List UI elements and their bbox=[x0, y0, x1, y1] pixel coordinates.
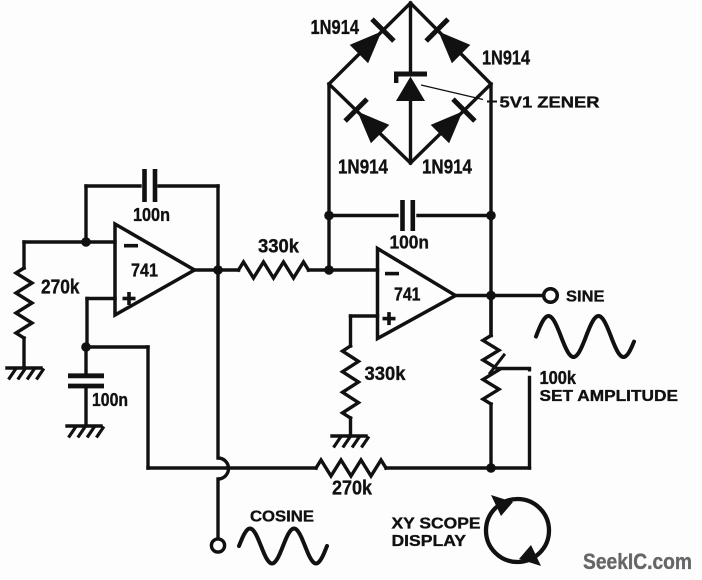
svg-text:1N914: 1N914 bbox=[482, 48, 531, 70]
svg-text:COSINE: COSINE bbox=[250, 509, 314, 526]
svg-text:SET AMPLITUDE: SET AMPLITUDE bbox=[540, 388, 679, 405]
svg-text:1N914: 1N914 bbox=[311, 17, 360, 39]
svg-text:741: 741 bbox=[131, 261, 158, 281]
svg-text:5V1 ZENER: 5V1 ZENER bbox=[500, 95, 601, 112]
svg-text:SINE: SINE bbox=[566, 289, 605, 306]
svg-text:SeekIC.com: SeekIC.com bbox=[583, 549, 692, 574]
svg-text:100n: 100n bbox=[92, 390, 128, 410]
svg-text:270k: 270k bbox=[41, 277, 80, 299]
svg-text:XY SCOPE: XY SCOPE bbox=[392, 516, 481, 533]
svg-text:741: 741 bbox=[394, 285, 421, 305]
svg-text:100n: 100n bbox=[133, 205, 170, 225]
svg-text:1N914: 1N914 bbox=[422, 157, 473, 179]
svg-text:100k: 100k bbox=[540, 368, 577, 388]
svg-text:DISPLAY: DISPLAY bbox=[392, 533, 467, 550]
svg-text:1N914: 1N914 bbox=[338, 157, 389, 179]
svg-text:100n: 100n bbox=[390, 233, 430, 253]
svg-text:270k: 270k bbox=[332, 478, 373, 500]
svg-text:330k: 330k bbox=[365, 364, 406, 385]
svg-text:330k: 330k bbox=[258, 237, 299, 258]
